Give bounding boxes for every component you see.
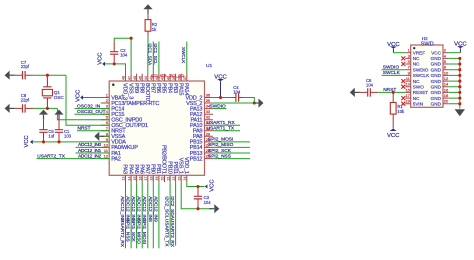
svg-text:13: 13 bbox=[405, 82, 410, 87]
svg-text:SWD: SWD bbox=[421, 42, 434, 48]
VCC flag above VDD_2 bbox=[217, 79, 224, 81]
svg-text:I2C1_SCL: I2C1_SCL bbox=[170, 74, 185, 78]
svg-text:GND: GND bbox=[431, 79, 442, 84]
net label USART2_TX and ADC12_IN2 on PA2 bbox=[37, 158, 110, 160]
U1 bottom pin stubs bbox=[126, 175, 187, 182]
svg-text:36: 36 bbox=[206, 93, 211, 98]
svg-text:SWDIO: SWDIO bbox=[413, 67, 429, 72]
svg-text:18: 18 bbox=[444, 93, 449, 98]
svg-text:PB5: PB5 bbox=[161, 83, 167, 93]
svg-text:USART1_RX: USART1_RX bbox=[207, 120, 236, 126]
svg-text:BOOT0: BOOT0 bbox=[144, 83, 150, 101]
svg-text:ADC12_IN1: ADC12_IN1 bbox=[78, 148, 102, 154]
svg-text:SWDIO: SWDIO bbox=[210, 103, 227, 109]
svg-text:PB9: PB9 bbox=[133, 83, 139, 93]
svg-text:PB10: PB10 bbox=[166, 161, 172, 174]
svg-text:SWCLK: SWCLK bbox=[383, 70, 401, 76]
net label SPI2_MISO on PB14 bbox=[213, 146, 250, 148]
svg-text:15: 15 bbox=[133, 177, 137, 181]
svg-text:NC: NC bbox=[413, 96, 420, 101]
svg-text:USART2_RX: USART2_RX bbox=[119, 219, 125, 248]
svg-text:VCC: VCC bbox=[454, 42, 467, 48]
svg-text:NRST: NRST bbox=[78, 126, 91, 132]
svg-text:USART3_TX: USART3_TX bbox=[164, 219, 170, 247]
svg-text:21: 21 bbox=[166, 177, 170, 181]
wire crystal bottom node bbox=[33, 107, 57, 109]
svg-text:14: 14 bbox=[444, 82, 449, 87]
U1 left pin stubs bbox=[101, 98, 109, 159]
wire VCC to VBAT pin 1 bbox=[83, 97, 109, 99]
VCC flag above H2 pin 2 bbox=[457, 46, 464, 48]
net label I2C1_SCL on PB6 bbox=[158, 42, 160, 74]
wire net stub below pin 22 bbox=[175, 182, 177, 245]
svg-text:OSC32_IN: OSC32_IN bbox=[77, 103, 101, 109]
svg-text:103: 103 bbox=[64, 134, 72, 139]
net label NRST on pin 7 bbox=[77, 130, 109, 132]
svg-text:104: 104 bbox=[120, 53, 128, 58]
svg-text:GND: GND bbox=[431, 62, 442, 67]
IC U1 STM32F103C8T6 body bbox=[109, 81, 204, 175]
svg-text:104: 104 bbox=[233, 89, 241, 94]
ground flag at VSSA pin 8 bbox=[94, 132, 99, 141]
svg-text:H2: H2 bbox=[422, 36, 428, 41]
net label OSC32_OUT on PC15 bbox=[75, 113, 110, 115]
svg-text:48: 48 bbox=[122, 76, 126, 80]
net label I2C1_SDA on PB7 bbox=[152, 42, 154, 74]
svg-text:GND: GND bbox=[431, 101, 442, 106]
svg-text:22pf: 22pf bbox=[21, 64, 30, 69]
junction NRST and R1 bbox=[392, 91, 395, 94]
net label OSC32_IN on PC14 bbox=[75, 108, 110, 110]
svg-text:104: 104 bbox=[204, 200, 212, 205]
svg-text:19: 19 bbox=[405, 99, 410, 104]
svg-text:10: 10 bbox=[104, 142, 109, 147]
svg-text:PB12: PB12 bbox=[190, 156, 203, 162]
wire net stub below pin 15 bbox=[136, 182, 138, 248]
wire net stub below pin 17 bbox=[147, 182, 149, 248]
svg-text:SWCLK: SWCLK bbox=[181, 47, 186, 64]
capacitor C7 bbox=[15, 74, 33, 76]
resistor R2 1k on BOOT0 bbox=[147, 14, 149, 36]
VCC flag at VDDA rail bbox=[30, 140, 33, 144]
junctions on H2 ground rail bbox=[458, 57, 461, 60]
net label USART1_TX on PA9 bbox=[213, 130, 240, 132]
svg-text:PB1: PB1 bbox=[155, 164, 161, 174]
svg-text:ADC12_IN8: ADC12_IN8 bbox=[147, 196, 153, 222]
junction C3 bottom bbox=[196, 207, 199, 210]
svg-text:5VIN: 5VIN bbox=[413, 101, 423, 106]
svg-text:VSS_3: VSS_3 bbox=[127, 83, 133, 99]
junction crystal bottom bbox=[46, 107, 49, 110]
svg-text:20: 20 bbox=[444, 99, 449, 104]
svg-text:PB7: PB7 bbox=[150, 83, 156, 93]
crystal Q1 OSC bbox=[43, 75, 51, 108]
svg-text:16: 16 bbox=[138, 177, 142, 181]
H2 left pin stubs bbox=[405, 53, 410, 104]
capacitor C8 bbox=[15, 107, 33, 109]
svg-text:35: 35 bbox=[206, 98, 211, 103]
svg-text:SPI1_MISO: SPI1_MISO bbox=[136, 219, 142, 245]
svg-text:I2C1_SDA: I2C1_SDA bbox=[151, 74, 167, 78]
svg-text:OSC32_OUT: OSC32_OUT bbox=[77, 109, 106, 115]
net label ADC12_IN1 on PA1 bbox=[76, 152, 110, 154]
svg-text:GND: GND bbox=[431, 56, 442, 61]
svg-text:10k: 10k bbox=[397, 109, 405, 114]
VCC flag below R1 bbox=[390, 129, 397, 132]
svg-text:I2C2_SCL: I2C2_SCL bbox=[164, 196, 170, 218]
svg-text:PA6: PA6 bbox=[138, 164, 144, 174]
ground flag at C7 left bbox=[5, 71, 10, 80]
junction C1 on VDDA rail bbox=[57, 140, 60, 143]
net label SWDIO to H2 pin 7 bbox=[382, 69, 406, 71]
svg-text:22: 22 bbox=[172, 177, 176, 181]
svg-text:PB6: PB6 bbox=[155, 83, 161, 93]
svg-text:GND: GND bbox=[431, 84, 442, 89]
net label SPI2_SCK on PB13 bbox=[213, 152, 250, 154]
svg-text:U1: U1 bbox=[206, 63, 212, 69]
wire net stub below pin 14 bbox=[130, 182, 132, 248]
svg-text:29: 29 bbox=[206, 131, 211, 136]
svg-text:VDD_3: VDD_3 bbox=[122, 83, 128, 100]
svg-text:17: 17 bbox=[144, 177, 148, 181]
svg-text:ADC12_IN2: ADC12_IN2 bbox=[78, 153, 102, 159]
wire net stub below pin 19 bbox=[158, 182, 160, 248]
wire VDD_1 pin 24 to VCC bbox=[187, 182, 205, 186]
svg-text:1uf: 1uf bbox=[48, 134, 55, 139]
net label SWDIO on PA13 bbox=[213, 108, 227, 110]
svg-text:13: 13 bbox=[122, 177, 126, 181]
ground flag right of VSS_1 bbox=[214, 204, 219, 213]
svg-text:PA2: PA2 bbox=[111, 156, 121, 162]
svg-text:USART2_TX: USART2_TX bbox=[37, 153, 65, 159]
capacitor C2 bbox=[113, 42, 115, 64]
junction at VSS_3 wire corner bbox=[130, 37, 133, 40]
net label SWCLK on PA14 bbox=[186, 42, 188, 74]
svg-text:SPI2_MOSI: SPI2_MOSI bbox=[208, 137, 233, 143]
svg-text:SWO: SWO bbox=[413, 84, 424, 89]
H2 right pin stubs bbox=[443, 53, 448, 104]
net label ADC12_IN0 on PA0 bbox=[76, 146, 110, 148]
svg-text:45: 45 bbox=[138, 76, 142, 80]
capacitor C1 with ground above bbox=[54, 110, 63, 115]
svg-text:VCC: VCC bbox=[209, 179, 215, 191]
svg-text:44: 44 bbox=[144, 76, 148, 80]
svg-text:VCC: VCC bbox=[98, 53, 104, 65]
connector H2 SWD body bbox=[411, 45, 443, 107]
svg-text:SWCLK: SWCLK bbox=[413, 73, 430, 78]
svg-text:ADC12_IN9: ADC12_IN9 bbox=[152, 196, 158, 222]
capacitor C6 bbox=[360, 91, 378, 93]
svg-text:PA15: PA15 bbox=[177, 83, 183, 95]
capacitor C4 bbox=[232, 97, 244, 99]
svg-text:SWDIO: SWDIO bbox=[383, 65, 400, 71]
svg-text:SPI1_NSS: SPI1_NSS bbox=[125, 219, 131, 242]
svg-text:RESET: RESET bbox=[413, 90, 429, 95]
net label SPI2_MOSI on PB15 bbox=[213, 141, 250, 143]
wire C2 top to VSS_3 pin 47 bbox=[114, 38, 131, 74]
wire VSSA bbox=[104, 135, 109, 137]
svg-text:22pf: 22pf bbox=[21, 97, 30, 102]
svg-text:VCC: VCC bbox=[387, 42, 400, 48]
svg-text:ADC12_IN0: ADC12_IN0 bbox=[78, 142, 102, 148]
VCC flag at VBAT bbox=[80, 95, 83, 99]
VCC flag right of VDD_1 bbox=[205, 184, 208, 188]
svg-text:VDD_1: VDD_1 bbox=[183, 157, 189, 174]
ground flag at C8 left bbox=[5, 104, 10, 113]
wire crystal top to OSC_OUT pin 6 bbox=[66, 75, 109, 125]
svg-text:SPI2_MISO: SPI2_MISO bbox=[208, 142, 234, 148]
H2 ground rail bbox=[448, 58, 460, 103]
net label NRST at H2 RESET bbox=[378, 91, 405, 93]
net label SPI2_NSS on PB12 bbox=[213, 158, 250, 160]
svg-text:10: 10 bbox=[444, 70, 449, 75]
ground flag above R2 bbox=[143, 4, 152, 9]
svg-text:SPI1_MOSI: SPI1_MOSI bbox=[141, 219, 147, 244]
svg-text:GND: GND bbox=[431, 96, 442, 101]
capacitor C3 bbox=[197, 187, 199, 209]
junction VCC stem on VDD_2 wire bbox=[219, 96, 222, 99]
junction C3 top bbox=[196, 185, 199, 188]
svg-text:GND: GND bbox=[431, 73, 442, 78]
junction C5 on VDDA rail bbox=[42, 140, 45, 143]
svg-text:PB3: PB3 bbox=[172, 83, 178, 93]
svg-text:USART3_RX: USART3_RX bbox=[169, 219, 175, 248]
svg-text:GND: GND bbox=[431, 67, 442, 72]
wire net stub below pin 21 bbox=[169, 182, 171, 245]
resistor R1 10k bbox=[392, 92, 394, 124]
svg-text:PB2/BOOT1: PB2/BOOT1 bbox=[161, 145, 167, 174]
svg-text:PA5: PA5 bbox=[133, 164, 139, 174]
svg-text:16: 16 bbox=[444, 87, 449, 92]
svg-text:VREF: VREF bbox=[413, 50, 425, 55]
U1 top pin stubs bbox=[126, 74, 187, 81]
svg-text:NC: NC bbox=[413, 56, 420, 61]
wire VCC to VREF pin 1 bbox=[393, 52, 405, 54]
svg-text:PA7: PA7 bbox=[144, 164, 150, 174]
svg-text:NC: NC bbox=[413, 79, 420, 84]
svg-text:46: 46 bbox=[133, 76, 137, 80]
wire R2 to BOOT0 pin 44 bbox=[147, 37, 149, 74]
U1 right pin stubs bbox=[205, 98, 213, 159]
svg-text:PA3: PA3 bbox=[122, 164, 128, 174]
svg-text:NC: NC bbox=[413, 62, 420, 67]
svg-text:GND: GND bbox=[431, 90, 442, 95]
wire VCC to VDDA pin 9 bbox=[33, 141, 109, 143]
wire net stub below pin 16 bbox=[141, 182, 143, 248]
svg-text:VSS_1: VSS_1 bbox=[177, 158, 183, 174]
svg-text:I2C1_SCL: I2C1_SCL bbox=[153, 44, 158, 66]
svg-text:19: 19 bbox=[155, 177, 159, 181]
svg-text:PB0: PB0 bbox=[150, 164, 156, 174]
svg-text:I2C1_SDA: I2C1_SDA bbox=[148, 44, 153, 67]
svg-text:24: 24 bbox=[183, 177, 187, 181]
svg-text:VCC: VCC bbox=[214, 75, 227, 81]
svg-text:PB8: PB8 bbox=[138, 83, 144, 93]
wire crystal top node bbox=[33, 74, 66, 76]
svg-text:OSC: OSC bbox=[54, 95, 65, 100]
svg-text:32: 32 bbox=[206, 115, 211, 120]
svg-text:PB11: PB11 bbox=[172, 162, 178, 174]
svg-text:SPI2_NSS: SPI2_NSS bbox=[208, 153, 231, 159]
svg-text:47: 47 bbox=[127, 76, 131, 80]
svg-text:SPI1_SCK: SPI1_SCK bbox=[130, 219, 136, 243]
VCC flag above H2 VREF bbox=[390, 46, 397, 48]
VCC flag left of C2 bbox=[102, 62, 105, 66]
svg-text:PA4: PA4 bbox=[127, 164, 133, 174]
wire C4 to VSS_2 rail bbox=[243, 98, 254, 104]
capacitor C5 with ground above bbox=[39, 110, 48, 115]
svg-text:23: 23 bbox=[177, 177, 181, 181]
wire VSS_1 pin 23 to ground bbox=[181, 182, 211, 208]
ground flag left of C6 bbox=[350, 88, 355, 97]
net label SWCLK to H2 pin 9 bbox=[382, 74, 406, 76]
wire crystal bottom to OSC_IN pin 5 bbox=[57, 108, 109, 119]
svg-text:12: 12 bbox=[444, 76, 449, 81]
svg-text:14: 14 bbox=[127, 177, 131, 181]
svg-text:15: 15 bbox=[405, 87, 410, 92]
svg-text:12: 12 bbox=[104, 154, 109, 159]
junction C2 bottom bbox=[113, 62, 116, 65]
ground flag below H2 rail bbox=[455, 109, 465, 116]
wire VCC to H2 pin 2 bbox=[448, 52, 460, 54]
wire VCC rail to VDD_3 pin 48 bbox=[105, 64, 126, 74]
svg-text:104: 104 bbox=[366, 83, 374, 88]
ground flag right of VSS_2 bbox=[259, 99, 264, 108]
junction crystal top bbox=[46, 74, 49, 77]
svg-text:PA14: PA14 bbox=[183, 83, 189, 95]
no-connect marks on H2 unused pins bbox=[401, 56, 405, 60]
svg-text:VCC: VCC bbox=[387, 133, 400, 139]
svg-text:VCC: VCC bbox=[76, 90, 82, 102]
svg-text:USART1_TX: USART1_TX bbox=[207, 126, 235, 132]
junction VSS_2 ground node bbox=[253, 101, 256, 104]
wire VDD_2 pin 36 to C4 bbox=[213, 97, 232, 99]
wire net stub below pin 18 bbox=[152, 182, 154, 248]
svg-text:20: 20 bbox=[161, 177, 165, 181]
svg-text:I2C2_SDA: I2C2_SDA bbox=[169, 196, 175, 219]
svg-text:17: 17 bbox=[405, 93, 410, 98]
svg-text:SPI2_SCK: SPI2_SCK bbox=[208, 148, 232, 154]
svg-text:33: 33 bbox=[206, 109, 211, 114]
wire VSS_2 pin 35 to ground bbox=[213, 102, 254, 104]
net label USART1_RX on PA10 bbox=[213, 124, 240, 126]
svg-text:VCC: VCC bbox=[24, 135, 30, 147]
svg-text:PB4: PB4 bbox=[166, 83, 172, 93]
wire net stub below pin 13 bbox=[125, 182, 127, 248]
svg-text:18: 18 bbox=[150, 177, 154, 181]
svg-text:VCC: VCC bbox=[431, 50, 441, 55]
